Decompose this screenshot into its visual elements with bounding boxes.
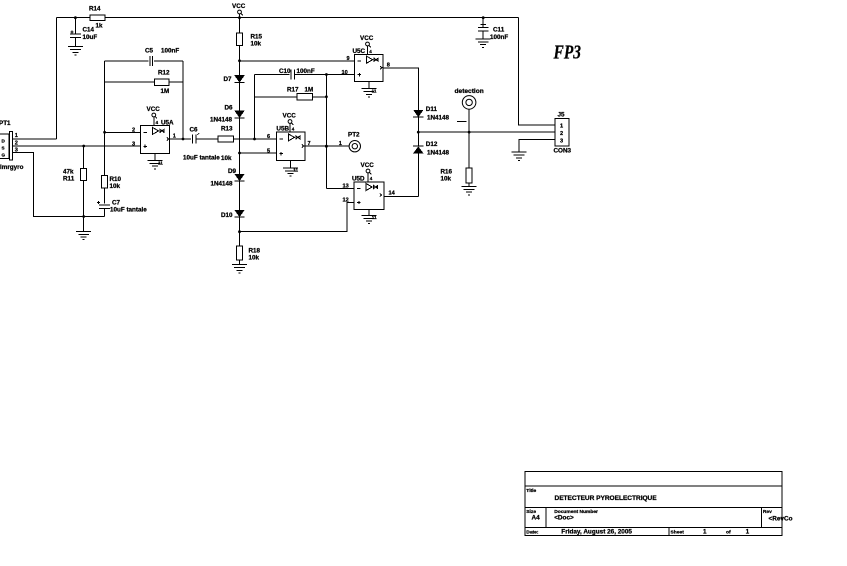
- resistor R11: [83, 146, 85, 168]
- svg-text:Sheet: Sheet: [671, 529, 685, 535]
- svg-text:VCC: VCC: [361, 162, 375, 169]
- node U5B pin6 junction: [253, 138, 256, 141]
- svg-text:Rev: Rev: [763, 509, 772, 515]
- wire left drop to sensor: [56, 18, 58, 139]
- wire U5A output: [170, 138, 192, 140]
- resistor R12: [105, 81, 155, 83]
- ground below U5B: [289, 161, 291, 168]
- capacitor C6: [191, 135, 193, 144]
- ground below U5A: [154, 153, 156, 160]
- ground below C11: [476, 39, 491, 47]
- svg-text:Date:: Date:: [526, 530, 539, 536]
- svg-text:DETECTEUR PYROELECTRIQUE: DETECTEUR PYROELECTRIQUE: [555, 495, 658, 502]
- ground below U5D: [368, 209, 370, 215]
- svg-text:10uF tantale: 10uF tantale: [183, 155, 220, 162]
- svg-text:R18: R18: [249, 248, 261, 255]
- svg-text:10k: 10k: [110, 183, 121, 190]
- svg-text:R14: R14: [89, 6, 101, 13]
- wire sensor pin3 down and along bottom: [12, 153, 104, 217]
- svg-text:D10: D10: [221, 212, 233, 219]
- wire sensor pin2 to U5A pin3: [12, 145, 140, 147]
- ground below U5C: [368, 82, 370, 89]
- wire feedback2 left vertical: [254, 75, 256, 140]
- capacitor C5: [105, 60, 149, 62]
- connector J5: [555, 118, 569, 146]
- ground bottom-left: [83, 217, 85, 232]
- node detection junction: [468, 131, 471, 134]
- wire J5 pin3 to ground: [519, 140, 555, 153]
- svg-text:14: 14: [389, 191, 396, 197]
- svg-text:11: 11: [293, 168, 298, 173]
- resistor R16: [468, 132, 470, 168]
- svg-text:1N4148: 1N4148: [211, 181, 234, 188]
- svg-text:G: G: [2, 153, 6, 158]
- svg-text:of: of: [726, 529, 731, 535]
- node pin2 feedback junction: [103, 131, 106, 134]
- svg-text:PT2: PT2: [348, 131, 360, 138]
- svg-text:1: 1: [746, 528, 750, 535]
- diode D7: [234, 75, 244, 82]
- wire to U5D pin12: [240, 203, 355, 232]
- wire U5C output: [383, 68, 418, 110]
- svg-text:4: 4: [156, 120, 159, 125]
- svg-text:CON3: CON3: [554, 147, 572, 154]
- svg-text:C6: C6: [190, 127, 199, 134]
- resistor R15: [239, 18, 241, 33]
- svg-text:R11: R11: [63, 175, 75, 182]
- wire U5D output: [384, 195, 418, 197]
- svg-text:A4: A4: [532, 515, 541, 522]
- node U5B pin5 tap: [238, 152, 241, 155]
- ground below R18: [232, 265, 247, 273]
- svg-text:C10: C10: [279, 68, 291, 75]
- diode D10: [234, 210, 244, 217]
- svg-text:VCC: VCC: [232, 3, 246, 10]
- capacitor C11: [482, 18, 484, 28]
- svg-text:D11: D11: [426, 106, 438, 113]
- svg-text:R12: R12: [158, 70, 170, 77]
- wire to U5C pin9: [240, 60, 355, 62]
- svg-text:2: 2: [560, 131, 563, 137]
- svg-text:10k: 10k: [221, 155, 232, 162]
- svg-text:1M: 1M: [161, 88, 170, 95]
- node R11 top: [82, 145, 85, 148]
- node U5A output / feedback junction: [182, 138, 185, 141]
- svg-text:10k: 10k: [249, 255, 260, 262]
- svg-text:J5: J5: [558, 111, 566, 118]
- svg-text:3: 3: [560, 138, 563, 144]
- wire VCC drop to J5 pin1: [519, 18, 556, 125]
- svg-text:100nF: 100nF: [490, 34, 508, 41]
- svg-text:FP3: FP3: [553, 42, 581, 64]
- ground J5 pin3: [511, 152, 526, 160]
- node C10 right junction: [325, 73, 328, 76]
- svg-text:lmrgyro: lmrgyro: [0, 164, 24, 171]
- svg-text:S: S: [2, 146, 5, 151]
- wire feedback2 right vertical: [325, 75, 327, 189]
- resistor R10: [102, 176, 108, 188]
- svg-text:C11: C11: [493, 27, 505, 34]
- svg-text:1N4148: 1N4148: [427, 150, 450, 157]
- node ground wire: [82, 215, 85, 218]
- svg-text:6: 6: [267, 134, 270, 140]
- svg-text:PT1: PT1: [0, 120, 11, 127]
- svg-text:D7: D7: [224, 76, 233, 83]
- svg-text:1N4148: 1N4148: [427, 115, 450, 122]
- wire top VCC rail: [57, 17, 91, 19]
- capacitor C10: [255, 74, 290, 76]
- wire pin2 to feedback: [105, 131, 141, 133]
- svg-text:10k: 10k: [441, 176, 452, 183]
- capacitor C14: [74, 18, 76, 34]
- node U5B output junction: [325, 145, 328, 148]
- svg-text:D12: D12: [426, 141, 438, 148]
- svg-text:1M: 1M: [305, 87, 314, 94]
- node U5C pin9 tap: [238, 59, 241, 62]
- svg-text:C7: C7: [112, 200, 121, 207]
- svg-text:R16: R16: [441, 169, 453, 176]
- diode D11: [413, 110, 423, 117]
- resistor R13: [218, 136, 234, 142]
- svg-text:3: 3: [132, 142, 135, 148]
- svg-text:11: 11: [372, 215, 377, 220]
- svg-text:U5C: U5C: [353, 48, 366, 55]
- wire sensor pin1 to VCC-R14 node: [12, 138, 56, 140]
- resistor R17: [255, 96, 298, 98]
- svg-text:4: 4: [369, 49, 372, 54]
- op-amp U5A: [141, 126, 170, 154]
- wire U5B output to PT2: [305, 145, 349, 147]
- resistor R18: [237, 246, 243, 260]
- svg-text:10: 10: [342, 70, 348, 76]
- svg-text:U5A: U5A: [161, 120, 174, 127]
- svg-text:1: 1: [15, 133, 18, 139]
- svg-text:C14: C14: [83, 27, 95, 34]
- svg-text:1N4148: 1N4148: [210, 117, 233, 124]
- svg-text:D9: D9: [228, 168, 237, 175]
- op-amp U5D: [354, 182, 384, 210]
- svg-text:R17: R17: [287, 87, 299, 94]
- svg-text:VCC: VCC: [283, 113, 297, 120]
- svg-text:10uF: 10uF: [83, 34, 98, 41]
- wire to U5D pin13: [326, 188, 354, 190]
- svg-text:R15: R15: [251, 34, 263, 41]
- svg-text:9: 9: [347, 56, 350, 62]
- svg-text:100nF: 100nF: [161, 48, 179, 55]
- svg-text:100nF: 100nF: [297, 68, 315, 75]
- diode D6: [234, 111, 244, 118]
- svg-text:4: 4: [292, 127, 295, 132]
- svg-text:13: 13: [343, 184, 349, 190]
- svg-text:VCC: VCC: [147, 106, 161, 113]
- svg-text:10uF tantale: 10uF tantale: [110, 207, 147, 214]
- svg-text:VCC: VCC: [360, 35, 374, 42]
- title block: [525, 472, 782, 536]
- svg-text:U5D: U5D: [352, 175, 365, 182]
- svg-text:D6: D6: [225, 105, 234, 112]
- svg-text:<RevCo: <RevCo: [769, 516, 793, 523]
- svg-text:1: 1: [339, 141, 342, 147]
- diode D9: [234, 174, 244, 181]
- svg-text:47k: 47k: [63, 168, 74, 175]
- svg-text:1: 1: [703, 528, 707, 535]
- svg-text:11: 11: [372, 89, 377, 94]
- ground below R16: [462, 187, 477, 195]
- svg-text:Title: Title: [526, 488, 536, 494]
- wire feedback left vertical: [104, 61, 106, 176]
- svg-text:R10: R10: [110, 176, 122, 183]
- diode D12: [417, 132, 419, 146]
- op-amp U5C: [355, 55, 384, 82]
- svg-text:Friday, August 26, 2005: Friday, August 26, 2005: [561, 529, 632, 536]
- svg-text:11: 11: [158, 161, 163, 166]
- op-amp U5B: [276, 132, 305, 161]
- node rail-C14: [74, 16, 77, 19]
- svg-text:12: 12: [343, 198, 349, 204]
- node rail-C11: [482, 16, 485, 19]
- wire detection line: [418, 131, 555, 133]
- svg-text:R13: R13: [221, 126, 233, 133]
- capacitor C7: [99, 204, 110, 206]
- svg-text:10k: 10k: [251, 41, 262, 48]
- svg-text:1: 1: [560, 124, 563, 130]
- wire feedback right vertical: [182, 61, 184, 139]
- svg-text:4: 4: [370, 176, 373, 181]
- svg-text:1k: 1k: [96, 23, 104, 30]
- resistor R14: [90, 15, 105, 21]
- svg-text:detection: detection: [455, 88, 484, 95]
- wire to U5B pin5: [240, 152, 277, 154]
- node U5D pin12 tap: [238, 230, 241, 233]
- node detection line left: [417, 131, 420, 134]
- ground below C14: [68, 47, 83, 55]
- svg-text:<Doc>: <Doc>: [554, 515, 574, 522]
- svg-text:5: 5: [267, 148, 270, 154]
- node R17 right junction: [325, 95, 328, 98]
- svg-text:C5: C5: [145, 48, 154, 55]
- svg-text:U5B: U5B: [276, 126, 289, 133]
